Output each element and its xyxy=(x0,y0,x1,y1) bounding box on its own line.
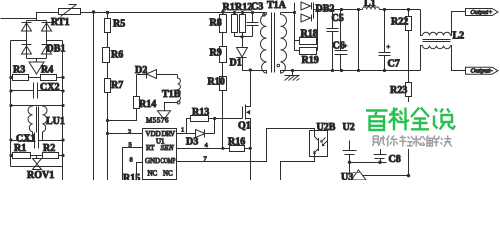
wire clamp bottom xyxy=(235,33,253,37)
wire left filter rail xyxy=(10,41,12,167)
svg-text:SEN: SEN xyxy=(161,144,174,152)
svg-text:1: 1 xyxy=(181,127,184,134)
resistor R4 xyxy=(41,75,57,81)
svg-text:ROV1: ROV1 xyxy=(27,170,54,180)
thermistor RT1 xyxy=(59,5,81,17)
svg-text:C7: C7 xyxy=(388,59,400,70)
svg-text:U3: U3 xyxy=(341,172,353,180)
junction xyxy=(293,11,296,14)
svg-text:8: 8 xyxy=(130,157,133,164)
svg-text:R7: R7 xyxy=(111,80,123,91)
wire pin2 VDD xyxy=(108,133,143,135)
resistor R6 xyxy=(103,48,110,63)
wire R1-R2 row xyxy=(11,155,13,157)
svg-text:R5: R5 xyxy=(113,19,125,30)
svg-text:2: 2 xyxy=(128,129,131,136)
junction xyxy=(378,161,381,164)
wire pin5 RT xyxy=(123,148,143,164)
svg-text:R15: R15 xyxy=(123,173,140,180)
junction xyxy=(213,117,216,120)
junction xyxy=(9,154,12,157)
svg-text:RT: RT xyxy=(146,144,155,152)
watermark 助你轻松解决 xyxy=(373,136,452,147)
capacitor CX1 xyxy=(11,133,63,149)
capacitor C7 xyxy=(379,10,391,71)
svg-text:C5: C5 xyxy=(332,13,344,24)
wire AC input top-left xyxy=(1,18,37,20)
phase dot xyxy=(277,64,280,67)
junction xyxy=(61,138,64,141)
junction xyxy=(383,69,386,72)
dual diode DB2 xyxy=(281,2,314,22)
svg-text:R9: R9 xyxy=(210,48,222,59)
svg-text:R8: R8 xyxy=(210,18,222,29)
svg-text:D3: D3 xyxy=(186,137,198,148)
capacitor C6 xyxy=(335,9,348,71)
svg-text:R16: R16 xyxy=(228,136,245,147)
inductor L1 xyxy=(363,7,380,10)
port Output+ xyxy=(466,9,499,16)
junction xyxy=(331,69,334,72)
wire bridge right tap xyxy=(47,40,63,42)
resistor R11 xyxy=(232,15,238,33)
watermark 百科全说 xyxy=(362,102,462,149)
wire line B vertical xyxy=(107,13,109,19)
shunt reg U3 xyxy=(350,163,409,181)
svg-text:L2: L2 xyxy=(453,31,465,42)
svg-text:R12: R12 xyxy=(235,2,252,13)
junction xyxy=(9,89,12,92)
ground arrow DB1 minus xyxy=(29,59,44,75)
svg-text:U2: U2 xyxy=(343,122,355,133)
capacitor CX2 xyxy=(11,83,63,99)
svg-text:D2: D2 xyxy=(135,65,147,76)
junction xyxy=(9,104,12,107)
svg-text:Q1: Q1 xyxy=(238,121,251,132)
junction xyxy=(251,11,254,14)
wire bridge left tap xyxy=(11,40,27,42)
junction xyxy=(221,147,224,150)
junction xyxy=(340,8,343,11)
wire opto emitter xyxy=(281,157,315,181)
svg-text:Output-: Output- xyxy=(471,69,493,75)
svg-text:R6: R6 xyxy=(111,50,123,61)
svg-text:R19: R19 xyxy=(302,55,319,66)
junction xyxy=(249,68,252,71)
capacitor feedback left xyxy=(343,141,357,163)
wire startup chain xyxy=(222,13,224,15)
wire R11 R12 tops xyxy=(234,13,236,15)
varistor ROV1 xyxy=(33,156,42,170)
junction xyxy=(9,76,12,79)
resistor R2 xyxy=(43,153,59,159)
node rail-B xyxy=(106,11,109,14)
svg-text:NC: NC xyxy=(148,170,158,178)
svg-text:R23: R23 xyxy=(390,85,407,96)
svg-text:GND: GND xyxy=(145,157,160,165)
resistor R9 xyxy=(220,47,227,63)
capacitor C8 xyxy=(374,148,387,163)
node rail-R8 xyxy=(221,10,224,13)
choke L2 xyxy=(421,10,466,71)
junction xyxy=(106,119,109,122)
diode D3 xyxy=(187,119,215,138)
junction xyxy=(357,8,360,11)
resistor R8 xyxy=(220,15,227,33)
svg-text:R1: R1 xyxy=(14,143,26,154)
svg-text:5: 5 xyxy=(129,142,132,149)
svg-text:COMP: COMP xyxy=(161,157,176,165)
wire R3-R4 row xyxy=(11,77,13,79)
svg-text:R10: R10 xyxy=(208,77,225,88)
junction xyxy=(106,132,109,135)
wire primary top rail xyxy=(81,12,267,14)
resistor R23 xyxy=(406,83,412,176)
node rail-A xyxy=(92,10,95,13)
junction xyxy=(241,11,244,14)
junction xyxy=(340,69,343,72)
transformer T1A xyxy=(261,13,287,74)
wire feedback row xyxy=(350,162,387,164)
wire secondary rail xyxy=(314,9,363,11)
wire gate xyxy=(215,118,243,120)
wire right filter rail xyxy=(62,41,64,181)
resistor R14 xyxy=(108,75,140,121)
svg-text:T1A: T1A xyxy=(267,0,287,11)
svg-text:R13: R13 xyxy=(192,107,209,118)
phase dot xyxy=(177,101,180,104)
phase dot xyxy=(263,14,266,17)
capacitor C3 xyxy=(247,13,259,37)
capacitor C5 xyxy=(327,10,339,71)
junction xyxy=(331,8,334,11)
junction xyxy=(61,76,64,79)
junction xyxy=(383,8,386,11)
ground earth secondary xyxy=(285,71,300,81)
svg-text:R4: R4 xyxy=(41,65,53,76)
svg-text:C3: C3 xyxy=(251,2,263,13)
resistor R3 xyxy=(13,75,29,81)
svg-text:Output+: Output+ xyxy=(471,10,493,16)
mosfet Q1 xyxy=(243,71,251,181)
wire bottom filter rail xyxy=(11,166,63,168)
svg-text:L1: L1 xyxy=(364,0,376,9)
wire pin1 DRV xyxy=(177,133,187,135)
svg-text:RT1: RT1 xyxy=(51,17,70,28)
resistor R13 xyxy=(187,116,215,134)
resistor R10 xyxy=(220,77,227,91)
svg-text:M5576: M5576 xyxy=(146,117,169,125)
wire startup line A xyxy=(93,13,95,181)
junction xyxy=(357,69,360,72)
svg-text:LU1: LU1 xyxy=(46,116,65,127)
junction xyxy=(240,35,243,38)
junction xyxy=(61,104,64,107)
resistor R12 xyxy=(240,15,246,33)
resistor R5 xyxy=(105,19,111,33)
junction xyxy=(61,154,64,157)
wire pin8 GND xyxy=(137,163,143,181)
junction xyxy=(233,11,236,14)
resistor R1 xyxy=(13,153,31,159)
optocoupler U2B xyxy=(310,131,328,157)
snubber R18 R19 xyxy=(295,10,318,55)
junction xyxy=(61,89,64,92)
junction xyxy=(316,8,319,11)
junction xyxy=(407,174,410,177)
wire cross link xyxy=(358,10,360,71)
resistor R16 xyxy=(230,146,245,152)
junction xyxy=(249,147,252,150)
svg-text:R22: R22 xyxy=(391,17,408,28)
svg-text:R2: R2 xyxy=(43,143,55,154)
diode D1 xyxy=(237,37,267,74)
wire pin7 COMP to opto xyxy=(177,129,315,162)
svg-text:T1B: T1B xyxy=(162,89,181,100)
resistor R15 xyxy=(122,164,124,181)
svg-text:U2B: U2B xyxy=(317,122,336,133)
svg-text:CX2: CX2 xyxy=(40,82,59,93)
svg-text:R18: R18 xyxy=(301,29,318,40)
bridge DB1 xyxy=(22,21,52,59)
resistor R7 xyxy=(105,79,111,93)
winding T1B xyxy=(165,75,181,106)
ground arrow T1B xyxy=(158,106,171,120)
svg-text:+: + xyxy=(344,43,348,50)
svg-text:D1: D1 xyxy=(230,58,242,69)
junction xyxy=(9,138,12,141)
wire RT1 feed xyxy=(37,13,59,21)
svg-text:C8: C8 xyxy=(389,154,401,165)
port Output- xyxy=(466,67,499,74)
svg-text:+: + xyxy=(387,44,391,51)
junction xyxy=(407,8,410,11)
wire secondary bottom rail xyxy=(281,71,421,74)
svg-text:R3: R3 xyxy=(13,65,25,76)
choke LU1 xyxy=(11,106,63,141)
resistor R22 xyxy=(406,10,412,83)
junction xyxy=(291,69,294,72)
svg-text:R14: R14 xyxy=(139,99,156,110)
wire pin4 SEN / R16 xyxy=(177,148,230,150)
svg-text:NC: NC xyxy=(163,170,173,178)
junction xyxy=(348,161,351,164)
IC U1 M5576 xyxy=(143,129,177,180)
svg-text:4: 4 xyxy=(205,142,209,149)
diode D2 xyxy=(137,70,178,79)
